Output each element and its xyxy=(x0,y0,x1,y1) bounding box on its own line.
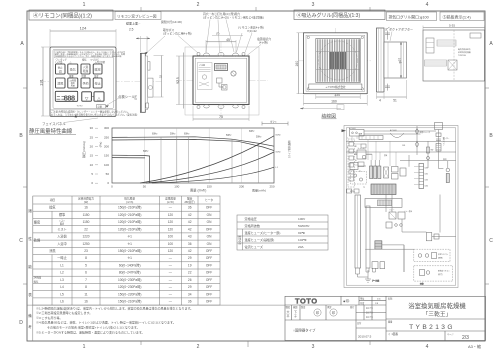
curve: max static pressure pair xyxy=(112,137,274,151)
svg-text:1150: 1150 xyxy=(83,220,90,224)
remote box bathroom dashed xyxy=(414,249,450,262)
svg-text:1: 1 xyxy=(83,2,86,8)
heater bar 1 xyxy=(355,195,361,268)
nameplate stickers xyxy=(425,33,482,70)
svg-text:20: 20 xyxy=(90,145,94,149)
svg-text:(7): (7) xyxy=(216,32,219,36)
svg-text:CN3: CN3 xyxy=(425,180,428,182)
mounting screws side view xyxy=(385,27,390,91)
leader: inspection seal xyxy=(106,94,136,108)
corner screw holes xyxy=(197,52,245,108)
svg-text:150(0~220Pa時): 150(0~220Pa時) xyxy=(118,291,141,296)
graph plot box xyxy=(112,128,274,183)
svg-text:定格消費電力: 定格消費電力 xyxy=(78,196,94,200)
svg-text:4: 4 xyxy=(426,2,429,8)
option lamp dashed box xyxy=(439,158,450,183)
svg-text:50Hz: 50Hz xyxy=(226,135,232,137)
svg-text:子: 子 xyxy=(294,313,297,318)
drawing number cell xyxy=(388,320,455,332)
power supply terminal xyxy=(342,127,365,136)
leader: face panel xyxy=(42,118,98,126)
aux relay boxes xyxy=(392,167,407,180)
svg-text:ページ: ページ xyxy=(447,333,454,336)
svg-text:予約: 予約 xyxy=(82,81,88,86)
center lines through plate xyxy=(176,42,268,120)
svg-text:50: 50 xyxy=(106,172,110,176)
curve: duct resistance steep xyxy=(140,136,274,183)
svg-text:L: L xyxy=(347,138,348,140)
svg-text:16: 16 xyxy=(84,300,88,304)
svg-text:C: C xyxy=(489,238,493,244)
grille corner screws xyxy=(307,36,363,90)
svg-text:2: 2 xyxy=(197,344,200,350)
svg-text:3: 3 xyxy=(312,2,315,8)
svg-text:23: 23 xyxy=(84,249,88,253)
svg-text:CN1: CN1 xyxy=(425,168,428,170)
svg-text:120(0~210Pa時): 120(0~210Pa時) xyxy=(118,219,141,224)
title label box: intake grille xyxy=(294,10,385,20)
svg-text:26: 26 xyxy=(188,278,192,282)
plate bottom dim 75 xyxy=(193,106,249,121)
svg-text:150(0~210Pa時): 150(0~210Pa時) xyxy=(118,248,141,253)
louver center dense band xyxy=(316,52,360,70)
svg-text:温風風量: 温風風量 xyxy=(165,196,176,200)
exhaust fan motor xyxy=(435,123,447,169)
wire: top bus xyxy=(346,131,455,141)
svg-text:1220: 1220 xyxy=(82,235,89,239)
svg-text:φ97: φ97 xyxy=(398,58,402,64)
svg-text:(W): (W) xyxy=(84,200,88,204)
graph x labels xyxy=(111,185,275,189)
svg-text:42: 42 xyxy=(188,213,192,217)
svg-text:22: 22 xyxy=(84,227,88,231)
svg-text:1250: 1250 xyxy=(82,242,89,246)
svg-text:※4:換気風量SBなどは、浴乾、トイレ(~1)および洗面、ト: ※4:換気風量SBなどは、浴乾、トイレ(~1)および洗面、トイレ時は一浴室詰(ー… xyxy=(36,320,176,325)
svg-text:(Pa): (Pa) xyxy=(99,142,103,148)
title block small cells row1 xyxy=(343,297,381,306)
svg-text:2010.07.5: 2010.07.5 xyxy=(358,335,372,339)
svg-text:34: 34 xyxy=(188,292,192,296)
svg-text:(タッピンねじ(4×25)・リモコン用ねじ4本(同梱)): (タッピンねじ(4×25)・リモコン用ねじ4本(同梱)) xyxy=(203,16,264,20)
svg-text:L3: L3 xyxy=(60,278,64,282)
svg-text:120: 120 xyxy=(168,220,174,224)
svg-text:1: 1 xyxy=(83,344,86,350)
title block row3 xyxy=(293,321,372,339)
wiring diagram outer box xyxy=(344,126,458,288)
svg-text:25: 25 xyxy=(90,135,94,139)
svg-text:ON: ON xyxy=(207,213,212,217)
title label box: remote xyxy=(29,10,113,20)
remote button 6 (row2) dark xyxy=(68,78,78,88)
svg-text:19: 19 xyxy=(188,264,192,268)
svg-text:ON: ON xyxy=(207,242,212,246)
svg-text:7(4)×22: 7(4)×22 xyxy=(247,29,257,33)
graph y labels xyxy=(104,126,109,185)
grille dim 160 vertical xyxy=(295,33,303,94)
svg-text:涼風: 涼風 xyxy=(49,248,56,253)
svg-text:(4ヶ所): (4ヶ所) xyxy=(259,41,268,45)
heater bar 2 xyxy=(366,206,370,268)
svg-text:11: 11 xyxy=(84,292,88,296)
svg-text:OFF: OFF xyxy=(206,271,212,275)
grille bottom strip xyxy=(309,84,362,89)
svg-text:入浴前: 入浴前 xyxy=(57,234,67,239)
duct adapter leader xyxy=(389,27,413,42)
svg-text:(m³/h): (m³/h) xyxy=(167,200,174,204)
svg-text:(同梱): (同梱) xyxy=(438,257,443,260)
svg-text:その他のモードの場合:浴室+脱衣室+トイレ(い段)(2:1:: その他のモードの場合:浴室+脱衣室+トイレ(い段)(2:1:1)となります。 xyxy=(47,325,140,330)
svg-text:CN4: CN4 xyxy=(425,186,428,188)
svg-text:TOTO: TOTO xyxy=(295,297,318,306)
remote button 7 (row2) xyxy=(81,78,90,88)
svg-text:5: 5 xyxy=(85,264,87,268)
svg-text:L4: L4 xyxy=(60,285,64,289)
svg-text:温度ヒューズ(基板部): 温度ヒューズ(基板部) xyxy=(245,237,275,242)
svg-text:乾燥: 乾燥 xyxy=(34,237,41,242)
svg-text:7: 7 xyxy=(85,278,87,282)
ground symbol xyxy=(365,272,424,286)
svg-text:⑤銘板表示(1:4): ⑤銘板表示(1:4) xyxy=(443,13,472,19)
svg-text:換気風量: 換気風量 xyxy=(124,196,135,200)
svg-text:120: 120 xyxy=(168,249,174,253)
caution text under remote xyxy=(51,110,138,118)
centerline remote xyxy=(40,80,162,82)
notes text xyxy=(36,305,193,334)
svg-text:2: 2 xyxy=(197,2,200,8)
wire: heater leads xyxy=(358,245,405,277)
svg-text:100(0~230Pa時): 100(0~230Pa時) xyxy=(118,277,141,282)
plate inner label box xyxy=(198,63,213,90)
svg-text:(タッピンねじ用4ヶ所): (タッピンねじ用4ヶ所) xyxy=(163,31,192,35)
svg-text:42: 42 xyxy=(188,249,192,253)
svg-text:888: 888 xyxy=(64,93,75,102)
svg-text:20A: 20A xyxy=(298,245,304,249)
svg-text:50Hz: 50Hz xyxy=(276,152,281,154)
svg-text:mm: mm xyxy=(377,299,381,301)
svg-text:諸: 諸 xyxy=(28,208,32,213)
title block row2 cells xyxy=(286,305,374,319)
svg-text:フェイスパネル: フェイスパネル xyxy=(42,121,66,126)
svg-text:45: 45 xyxy=(226,38,230,42)
svg-text:定格周波数: 定格周波数 xyxy=(245,223,260,228)
spec table text xyxy=(245,216,310,249)
svg-text:10.7.5: 10.7.5 xyxy=(366,316,373,319)
remote up button xyxy=(94,92,104,101)
left strip labels xyxy=(28,196,33,305)
title block frame xyxy=(285,296,486,340)
svg-text:8: 8 xyxy=(85,256,87,260)
performance table grid xyxy=(33,196,220,305)
notes box xyxy=(27,305,285,341)
svg-text:(m³/h): (m³/h) xyxy=(126,200,133,204)
title label box: exhaust opening xyxy=(387,12,437,21)
remote control front view body xyxy=(50,47,116,117)
svg-text:⊿ TOTO株式会社: ⊿ TOTO株式会社 xyxy=(325,85,346,89)
svg-text:99℃: 99℃ xyxy=(298,231,305,235)
operating point verticals xyxy=(161,137,259,183)
grille side view plate xyxy=(377,28,385,92)
svg-text:8: 8 xyxy=(85,285,87,289)
svg-text:16: 16 xyxy=(84,206,88,210)
svg-text:42: 42 xyxy=(188,227,192,231)
relay coil dashed box xyxy=(351,172,367,185)
main PCB box xyxy=(365,199,402,208)
svg-text:80(0~247Pa時): 80(0~247Pa時) xyxy=(119,270,141,275)
svg-text:OFF: OFF xyxy=(206,249,212,253)
svg-text:150(0~210Pa時): 150(0~210Pa時) xyxy=(118,205,141,210)
plate small parts xyxy=(217,78,228,90)
grille dim 160 bottom xyxy=(304,95,368,106)
nameplate panel xyxy=(423,30,485,81)
svg-text:壁面上面←: 壁面上面← xyxy=(126,21,141,26)
plate connector block xyxy=(215,64,228,71)
remote down button xyxy=(82,92,94,101)
misc tiny labels xyxy=(350,137,450,213)
svg-text:(14): (14) xyxy=(134,95,138,100)
svg-text:OFF: OFF xyxy=(206,292,212,296)
svg-text:※5:ヒーターがONする時間は、運転時間・温度により変わるも: ※5:ヒーターがONする時間は、運転時間・温度により変わるものにしています。 xyxy=(36,329,145,334)
svg-text:200: 200 xyxy=(104,145,109,149)
svg-text:4: 4 xyxy=(426,344,429,350)
svg-text:●㊞: ●㊞ xyxy=(343,298,349,304)
remote bottom small text + service seal xyxy=(77,105,106,109)
svg-text:4: 4 xyxy=(379,99,381,103)
back plate top dims xyxy=(206,38,236,53)
svg-text:100: 100 xyxy=(104,163,109,167)
svg-text:1150: 1150 xyxy=(83,213,90,217)
graph vertical gridlines xyxy=(144,128,241,183)
svg-text:電流ヒューズ: 電流ヒューズ xyxy=(245,244,263,249)
remote LCD display xyxy=(55,91,77,102)
remote button 1 (row1) xyxy=(56,64,66,74)
wire: mid verticals xyxy=(386,155,440,233)
TOTO logo xyxy=(295,297,318,306)
svg-text:A3・縮: A3・縮 xyxy=(468,343,481,349)
svg-text:ON: ON xyxy=(207,235,212,239)
remote box dressing dashed xyxy=(414,266,453,281)
svg-text:く 1図番: く 1図番 xyxy=(388,332,398,336)
svg-text:※1:24時間換気運転(設定あり)は、浴室内→トイレから排気: ※1:24時間換気運転(設定あり)は、浴室内→トイレから排気します。浴室の換気風… xyxy=(36,305,193,310)
svg-text:36: 36 xyxy=(188,242,192,246)
back plate body xyxy=(193,56,249,105)
svg-text:表: 表 xyxy=(28,292,32,297)
wire: left risers xyxy=(352,136,396,166)
svg-text:切: 切 xyxy=(59,68,62,73)
svg-text:静圧風量特性曲線: 静圧風量特性曲線 xyxy=(29,127,73,135)
grille center lines xyxy=(299,28,372,98)
svg-text:2.5: 2.5 xyxy=(129,28,134,32)
svg-text:CN2: CN2 xyxy=(425,174,428,176)
svg-text:(別売): (別売) xyxy=(438,273,443,276)
grille outer frame xyxy=(304,33,368,94)
grille louver area xyxy=(316,39,360,83)
svg-text:性: 性 xyxy=(28,236,32,241)
svg-text:リモコン窓プレビュー図: リモコン窓プレビュー図 xyxy=(117,14,157,19)
svg-text:④吸込みグリル(同梱品)(1:3): ④吸込みグリル(同梱品)(1:3) xyxy=(297,12,361,19)
CN connector small hatched xyxy=(375,241,382,249)
small boxes bottom left xyxy=(372,262,385,269)
svg-text:安全装置: 安全装置 xyxy=(238,235,242,245)
back plate leader labels xyxy=(163,12,271,55)
svg-text:10: 10 xyxy=(90,163,94,167)
svg-text:22: 22 xyxy=(188,271,192,275)
wiring diagram label xyxy=(300,105,344,120)
wire: secondary buses xyxy=(346,152,455,161)
svg-text:100V: 100V xyxy=(298,217,306,221)
svg-text:T2: T2 xyxy=(363,187,365,189)
svg-text:OFF: OFF xyxy=(206,227,212,231)
page cell xyxy=(388,332,469,341)
svg-text:○国際器タイプ: ○国際器タイプ xyxy=(293,328,316,333)
svg-text:C: C xyxy=(19,238,23,244)
svg-text:10.7.5: 10.7.5 xyxy=(366,312,373,315)
title label box: nameplate xyxy=(440,12,484,21)
svg-text:※3:こすも周り等。: ※3:こすも周り等。 xyxy=(36,315,62,320)
svg-text:※2:工場出荷設定風量時にも設定します。: ※2:工場出荷設定風量時にも設定します。 xyxy=(36,310,92,315)
curve labels xyxy=(143,131,291,169)
svg-text:静圧(mmAq): 静圧(mmAq) xyxy=(81,141,86,158)
grille dim 134 xyxy=(316,93,360,99)
plate left dims 92.5 / 93.5 xyxy=(176,53,193,109)
svg-text:浴室換気暖房乾燥機: 浴室換気暖房乾燥機 xyxy=(408,301,466,310)
svg-text:250: 250 xyxy=(104,135,109,139)
svg-text:標準: 標準 xyxy=(59,212,66,217)
svg-text:6: 6 xyxy=(85,271,87,275)
remote button 3 (row1) xyxy=(81,64,90,74)
aux vertical component column xyxy=(427,141,434,168)
remote side view xyxy=(134,52,164,113)
svg-text:75: 75 xyxy=(219,115,223,119)
svg-text:5-35: 5-35 xyxy=(449,24,455,28)
svg-text:50/60Hz: 50/60Hz xyxy=(298,224,310,228)
svg-text:dB(音圧): dB(音圧) xyxy=(184,200,195,204)
svg-text:50: 50 xyxy=(143,185,147,189)
svg-text:D: D xyxy=(19,320,23,326)
svg-text:42: 42 xyxy=(188,220,192,224)
svg-text:32: 32 xyxy=(159,75,163,79)
duct tube side xyxy=(384,42,407,78)
damper motor block xyxy=(359,129,404,140)
svg-text:暖房: 暖房 xyxy=(95,67,101,72)
svg-text:60Hz: 60Hz xyxy=(152,133,158,135)
svg-text:温度ヒューズ(ヒーター部): 温度ヒューズ(ヒーター部) xyxy=(245,230,281,235)
dimension 131 left of remote xyxy=(39,47,51,116)
spec table xyxy=(237,215,328,250)
svg-text:排気口グリル開口:φ100: 排気口グリル開口:φ100 xyxy=(389,14,429,19)
thermal fuse relay right xyxy=(402,232,456,241)
svg-text:OFF: OFF xyxy=(206,300,212,304)
relay cluster center xyxy=(386,209,405,229)
svg-text:④リモコン(同梱品)(1:2): ④リモコン(同梱品)(1:2) xyxy=(33,12,92,20)
svg-text:項目: 項目 xyxy=(50,198,56,202)
svg-text:換気: 換気 xyxy=(34,279,39,283)
approval stamp 1 xyxy=(314,309,321,316)
wire: bottom bus xyxy=(365,245,414,272)
svg-text:ダクト: ダクト xyxy=(270,120,278,124)
svg-text:30: 30 xyxy=(90,126,94,130)
bracket top right xyxy=(262,120,288,126)
svg-text:100: 100 xyxy=(168,235,174,239)
svg-text:一時止: 一時止 xyxy=(57,255,67,260)
svg-text:L6: L6 xyxy=(60,300,64,304)
svg-text:150(0~210Pa時): 150(0~210Pa時) xyxy=(118,299,141,304)
svg-text:OFF: OFF xyxy=(206,285,212,289)
svg-text:120(0~230Pa時): 120(0~230Pa時) xyxy=(118,284,141,289)
remote button labels row1 xyxy=(56,57,106,64)
svg-text:50Hz: 50Hz xyxy=(170,133,176,135)
svg-text:150: 150 xyxy=(207,185,212,189)
svg-text:102℃: 102℃ xyxy=(298,238,307,242)
svg-text:T1: T1 xyxy=(359,171,361,173)
remote button 4 (row1) xyxy=(93,64,102,74)
right connector column xyxy=(414,164,428,189)
svg-text:△: △ xyxy=(70,61,72,64)
title label box: remote window preview xyxy=(115,12,161,20)
svg-text:乾燥: 乾燥 xyxy=(83,69,89,73)
svg-text:150: 150 xyxy=(104,154,109,158)
svg-text:AC100V: AC100V xyxy=(349,127,356,130)
top tab holes xyxy=(204,53,239,57)
dim phi97 xyxy=(398,42,402,78)
graph y axis title xyxy=(81,141,103,158)
svg-text:124: 124 xyxy=(80,26,87,31)
svg-text:60(0~140Pa時): 60(0~140Pa時) xyxy=(119,263,141,268)
svg-text:TYB213G: TYB213G xyxy=(409,324,455,331)
product name cell xyxy=(388,297,466,319)
svg-text:OFF: OFF xyxy=(206,264,212,268)
dims 4 and 51 xyxy=(377,80,407,103)
svg-text:300: 300 xyxy=(104,126,109,130)
svg-text:騒音: 騒音 xyxy=(187,196,193,200)
svg-text:120: 120 xyxy=(168,227,174,231)
remote button 5 (row2) xyxy=(56,78,66,88)
remote button 8 (row2) xyxy=(93,78,102,88)
svg-text:200: 200 xyxy=(239,185,244,189)
back plate mounting outline xyxy=(185,47,259,115)
svg-text:OFF: OFF xyxy=(206,256,212,260)
svg-text:CN5: CN5 xyxy=(402,145,405,147)
svg-text:2/3: 2/3 xyxy=(462,335,469,341)
svg-text:定格電圧: 定格電圧 xyxy=(245,216,257,221)
svg-text:暖房: 暖房 xyxy=(34,219,40,224)
left terminal strip dashed xyxy=(348,139,355,187)
svg-text:「三乾王」: 「三乾王」 xyxy=(423,310,452,318)
svg-text:24時間: 24時間 xyxy=(34,275,42,279)
svg-text:29: 29 xyxy=(188,285,192,289)
table header xyxy=(50,196,214,204)
svg-text:結線図: 結線図 xyxy=(322,113,337,120)
svg-text:涼風: 涼風 xyxy=(57,81,63,86)
svg-text:換気: 換気 xyxy=(49,205,56,210)
svg-text:停止: 停止 xyxy=(95,81,101,86)
svg-text:60Hz: 60Hz xyxy=(184,133,190,135)
svg-text:60Hz: 60Hz xyxy=(249,131,255,133)
svg-text:※1: ※1 xyxy=(127,235,132,239)
svg-text:36: 36 xyxy=(188,206,192,210)
approval stamp 2 xyxy=(330,309,337,316)
svg-text:29: 29 xyxy=(188,256,192,260)
remote button labels row2 xyxy=(69,74,99,78)
nameplate dim 5-35 xyxy=(423,24,485,31)
svg-text:平: 平 xyxy=(287,314,290,318)
svg-text:51: 51 xyxy=(393,99,397,103)
svg-text:160: 160 xyxy=(331,100,337,104)
svg-text:SW: SW xyxy=(431,150,434,152)
svg-text:3: 3 xyxy=(312,344,315,350)
svg-text:OFF: OFF xyxy=(206,206,212,210)
svg-text:風量 (m³/h): 風量 (m³/h) xyxy=(190,188,206,193)
svg-text:L1: L1 xyxy=(60,264,64,268)
